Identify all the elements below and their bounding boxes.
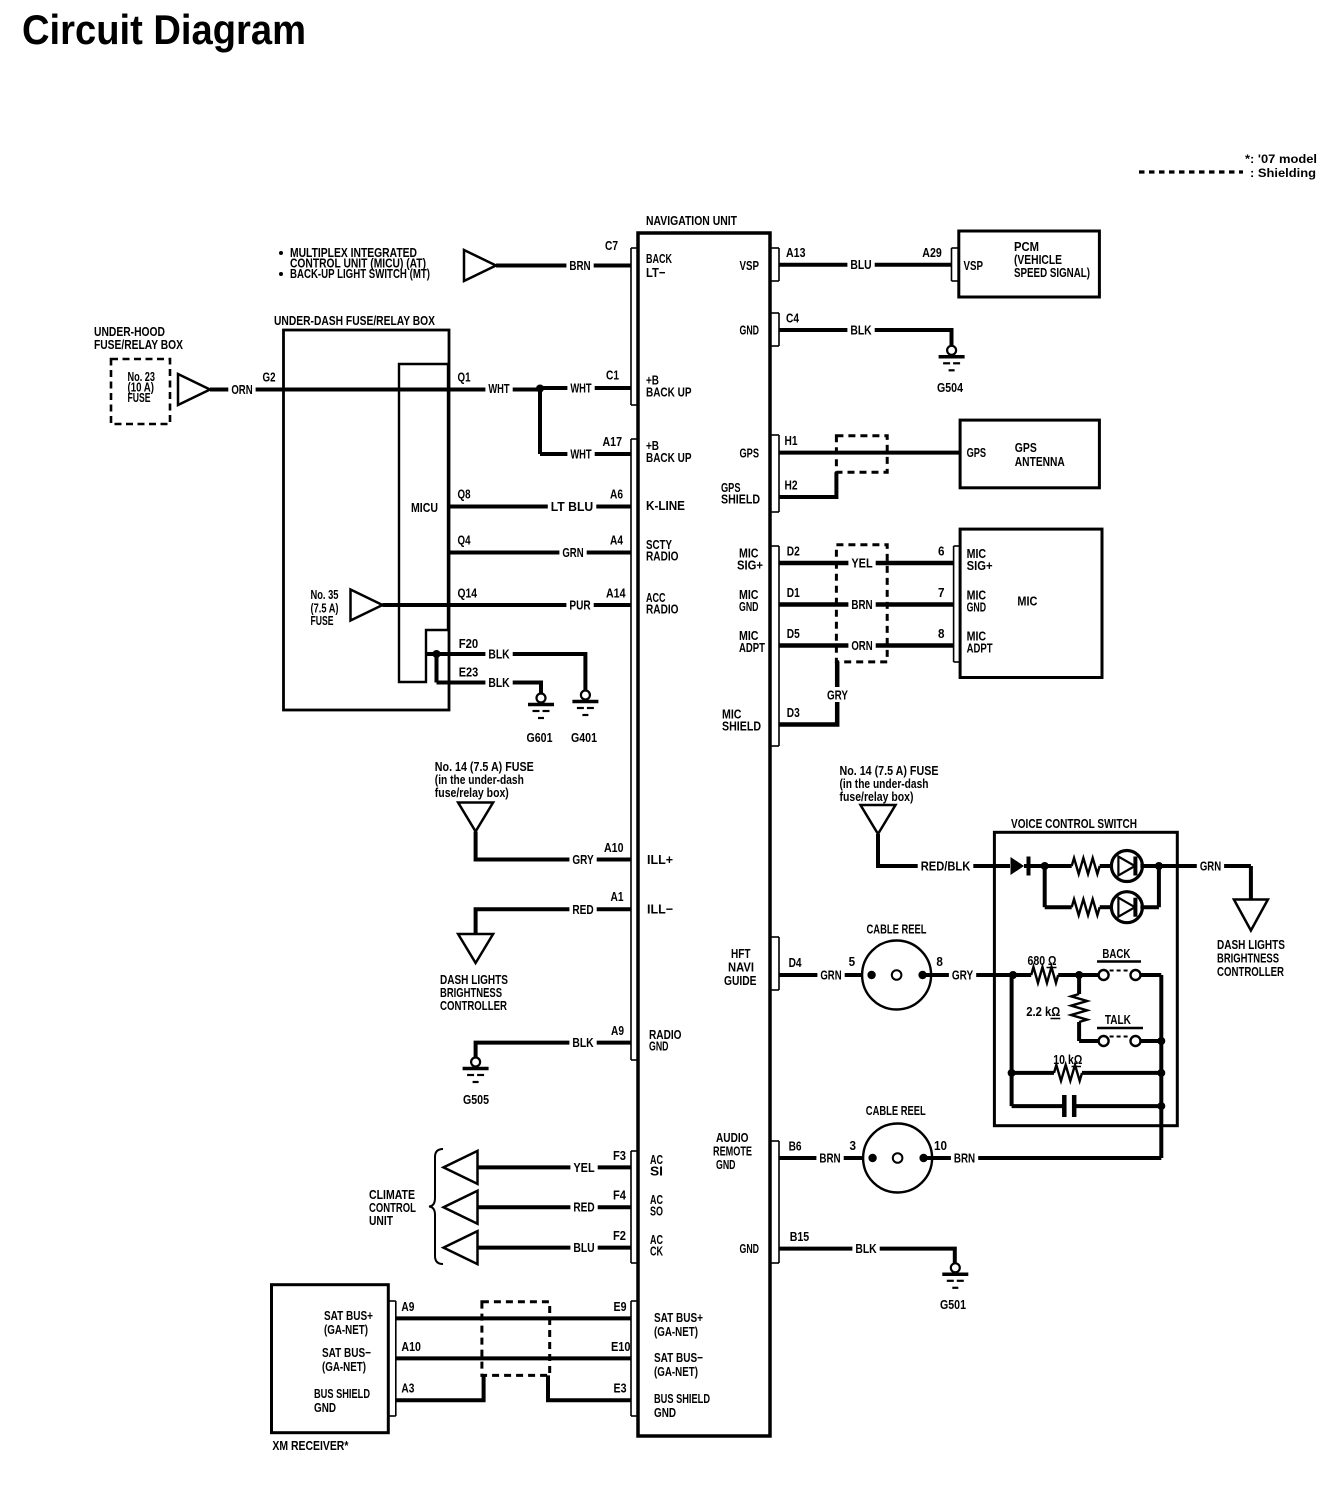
junction dot WHT: [536, 385, 544, 393]
arrow from fuse No.14 left: [458, 803, 493, 832]
connector bracket H (pins H1 H2): [778, 435, 780, 512]
shield dashed box GPS: [836, 436, 887, 473]
arrow to dash lights brightness controller left: [458, 934, 493, 963]
svg-text:A1: A1: [611, 889, 624, 904]
svg-text:GPS: GPS: [1015, 440, 1037, 455]
connector bracket F (pins F3 F4 F2): [630, 1151, 632, 1263]
svg-text:FUSE: FUSE: [128, 390, 151, 405]
junction dot after diode: [1041, 862, 1049, 870]
svg-text:CONTROLLER: CONTROLLER: [1217, 964, 1284, 979]
wire GRY cable reel to switch: [923, 973, 1013, 977]
right bus voice switch: [1159, 975, 1163, 1158]
svg-text:C4: C4: [786, 311, 800, 326]
MIC box: [960, 529, 1102, 677]
svg-text:MIC: MIC: [1017, 594, 1038, 609]
legend shielding dashed line: [1139, 170, 1243, 173]
svg-text:E3: E3: [614, 1381, 627, 1396]
svg-text:GRN: GRN: [820, 968, 841, 983]
arrow from fuse No.23: [178, 374, 210, 405]
wire ORN MIC ADPT D5 pin8: [779, 643, 954, 648]
wire BLU VSP A13 A29: [779, 263, 952, 267]
XM receiver bracket: [395, 1301, 397, 1416]
svg-text:CK: CK: [650, 1244, 663, 1259]
svg-text:RADIO: RADIO: [646, 549, 679, 564]
junction dot 680-2.2k: [1075, 971, 1083, 979]
wire PUR ACC RADIO Q14 A14: [383, 603, 632, 607]
svg-text:B15: B15: [790, 1229, 810, 1244]
svg-text:SAT BUS+: SAT BUS+: [654, 1310, 703, 1325]
svg-text:A13: A13: [786, 245, 806, 260]
svg-text:fuse/relay box): fuse/relay box): [435, 785, 509, 800]
svg-text:BLK: BLK: [855, 1241, 877, 1256]
connector bracket A left (pins A17 A6 A4 A14 A10 A1 A9): [630, 439, 632, 1060]
svg-text:BUS SHIELD: BUS SHIELD: [654, 1391, 710, 1406]
connector bracket A13: [778, 248, 780, 281]
svg-text:G501: G501: [940, 1297, 966, 1312]
svg-text:G504: G504: [937, 380, 964, 395]
climate control brace: [429, 1149, 443, 1264]
svg-text:C1: C1: [606, 368, 619, 383]
ground G504: [947, 346, 956, 355]
wire YEL AC SI F3: [478, 1165, 631, 1169]
svg-text:SAT BUS−: SAT BUS−: [654, 1350, 703, 1365]
svg-text:D1: D1: [787, 585, 800, 600]
svg-text:BACK-UP LIGHT SWITCH (MT): BACK-UP LIGHT SWITCH (MT): [290, 266, 430, 281]
svg-text:8: 8: [938, 626, 945, 641]
svg-text:VOICE CONTROL SWITCH: VOICE CONTROL SWITCH: [1011, 816, 1137, 831]
connector bracket D (pins D2 D1 D5 D3): [778, 546, 780, 746]
cable reel 1: [862, 941, 931, 1010]
svg-text:10: 10: [934, 1138, 947, 1153]
svg-text:(GA-NET): (GA-NET): [654, 1324, 698, 1339]
svg-text:F4: F4: [613, 1188, 627, 1203]
junction dot F20-E23: [433, 650, 441, 658]
svg-text:GPS: GPS: [967, 445, 987, 460]
wire RED/BLK voice control: [878, 834, 1010, 866]
cable reel 2: [863, 1124, 932, 1193]
svg-text:A10: A10: [401, 1339, 421, 1354]
svg-text:(GA-NET): (GA-NET): [322, 1359, 366, 1374]
connector bracket E (pins E9 E10 E3): [630, 1301, 632, 1416]
shield dashed box MIC: [836, 545, 887, 662]
svg-text:K-LINE: K-LINE: [646, 498, 685, 513]
svg-text:C7: C7: [605, 238, 618, 253]
svg-text:YEL: YEL: [851, 556, 872, 571]
svg-text:XM RECEIVER*: XM RECEIVER*: [272, 1438, 349, 1453]
wire BLK E23 to G601: [435, 654, 439, 683]
svg-text:2.2 kΩ: 2.2 kΩ: [1026, 1004, 1060, 1019]
svg-text:SAT BUS+: SAT BUS+: [324, 1308, 373, 1323]
PCM bracket: [951, 248, 953, 281]
junction dot 10k left: [1008, 1069, 1016, 1077]
svg-text:B6: B6: [789, 1139, 802, 1154]
svg-text:A17: A17: [603, 434, 623, 449]
svg-text:TALK: TALK: [1105, 1012, 1131, 1027]
MIC bracket: [953, 546, 955, 662]
svg-text:GND: GND: [967, 600, 987, 615]
wire YEL MIC SIG+ D2 pin6: [779, 561, 954, 566]
wire GRY MIC SHIELD D3: [779, 662, 837, 725]
arrow to dash lights brightness controller right: [1234, 900, 1268, 931]
wire BRN AUDIO REMOTE GND B6: [779, 1156, 871, 1160]
svg-text:SO: SO: [650, 1204, 663, 1219]
svg-text:YEL: YEL: [573, 1160, 594, 1175]
arrow to climate control RED: [444, 1191, 478, 1224]
svg-text:D4: D4: [789, 955, 803, 970]
svg-text:GND: GND: [740, 1241, 760, 1256]
svg-text:RED: RED: [572, 902, 593, 917]
svg-text:A4: A4: [610, 533, 624, 548]
connector bracket D4: [778, 937, 780, 990]
MICU box: [399, 364, 448, 682]
switch BACK: [1079, 973, 1099, 977]
svg-text:SHIELD: SHIELD: [721, 492, 760, 507]
svg-text:FUSE/RELAY BOX: FUSE/RELAY BOX: [94, 337, 183, 352]
svg-text:GPS: GPS: [740, 446, 760, 461]
svg-text:CABLE REEL: CABLE REEL: [866, 1103, 926, 1118]
arrow from fuse No.14 right: [861, 805, 896, 834]
svg-text:ILL−: ILL−: [647, 902, 673, 917]
svg-text:G505: G505: [463, 1092, 489, 1107]
svg-text:G401: G401: [571, 730, 597, 745]
svg-text:BUS SHIELD: BUS SHIELD: [314, 1386, 370, 1401]
capacitor C voice: [1012, 1104, 1065, 1108]
wire LED row2: [1043, 866, 1047, 907]
svg-text:FUSE: FUSE: [311, 613, 334, 628]
svg-text:A10: A10: [604, 840, 624, 855]
arrow to climate control YEL: [444, 1151, 478, 1184]
ground G401: [581, 691, 590, 700]
svg-text:Q1: Q1: [458, 370, 471, 385]
svg-text:NAVIGATION UNIT: NAVIGATION UNIT: [646, 213, 737, 228]
svg-text:BRN: BRN: [954, 1151, 975, 1166]
svg-text:PUR: PUR: [569, 598, 591, 613]
svg-text:8: 8: [936, 954, 943, 969]
wire BLK F20 to G401: [427, 654, 585, 693]
PCM box: [959, 231, 1100, 297]
ground G501: [951, 1263, 960, 1272]
LED 1: [1111, 851, 1142, 882]
wire ORN G2 Q1 WHT C1: [210, 388, 540, 392]
svg-text:WHT: WHT: [488, 381, 509, 396]
svg-text:A9: A9: [611, 1023, 624, 1038]
svg-text:GND: GND: [314, 1400, 336, 1415]
svg-text:LT−: LT−: [646, 265, 666, 280]
wire GPS SHIELD H2: [779, 472, 836, 497]
svg-text:A9: A9: [401, 1299, 414, 1314]
svg-text:BLK: BLK: [488, 647, 510, 662]
GPS antenna box: [960, 420, 1099, 488]
svg-text:Circuit Diagram: Circuit Diagram: [22, 6, 306, 53]
wire GRY ILL+ A10: [476, 832, 631, 860]
wire BRN C7: [496, 264, 631, 268]
left bus voice switch: [1010, 975, 1014, 1106]
resistor 680 ohm: [1013, 973, 1031, 977]
svg-text:BACK: BACK: [646, 251, 672, 266]
resistor LED row1: [1045, 864, 1072, 868]
svg-text:GRY: GRY: [572, 852, 594, 867]
svg-text:G2: G2: [263, 370, 276, 385]
svg-text:GRY: GRY: [827, 688, 848, 703]
wire BRN MIC GND D1 pin7: [779, 602, 954, 607]
svg-text:F3: F3: [613, 1148, 626, 1163]
connector bracket B (pins B6 B15): [778, 1141, 780, 1263]
svg-text:GUIDE: GUIDE: [724, 973, 757, 988]
svg-text:BACK UP: BACK UP: [646, 450, 692, 465]
svg-text:CABLE REEL: CABLE REEL: [867, 922, 927, 937]
svg-text:E9: E9: [614, 1299, 627, 1314]
XM receiver box: [272, 1285, 389, 1433]
svg-text:Q4: Q4: [458, 533, 472, 548]
svg-text:6: 6: [938, 544, 945, 559]
svg-text:SI: SI: [650, 1164, 663, 1179]
svg-text:E23: E23: [459, 665, 479, 680]
switch TALK: [1079, 1039, 1099, 1043]
wire GPS H1: [779, 451, 960, 455]
resistor 10k ohm: [1012, 1071, 1054, 1075]
arrow to climate control BLU: [444, 1231, 478, 1264]
svg-text:(GA-NET): (GA-NET): [324, 1322, 368, 1337]
svg-text:D2: D2: [787, 544, 800, 559]
wire RED ILL- A1: [476, 909, 631, 934]
arrow to back-up light switch: [464, 250, 496, 281]
svg-text:ILL+: ILL+: [647, 852, 673, 867]
junction dot TALK out: [1157, 1037, 1165, 1045]
svg-text:A3: A3: [401, 1381, 414, 1396]
wire GRN voice out: [1159, 864, 1251, 868]
wire GRN SCTY RADIO Q4 A4: [448, 551, 631, 555]
shield dashed box sat bus: [482, 1302, 550, 1376]
svg-text:A6: A6: [610, 487, 623, 502]
svg-text:F2: F2: [613, 1228, 626, 1243]
svg-text:H2: H2: [785, 478, 798, 493]
svg-text:GND: GND: [649, 1039, 669, 1054]
svg-text:G601: G601: [527, 730, 553, 745]
svg-text:A29: A29: [922, 245, 942, 260]
junction dot 10k right: [1157, 1069, 1165, 1077]
svg-text:E10: E10: [611, 1339, 631, 1354]
voice control switch box: [994, 832, 1177, 1125]
svg-text:MICU: MICU: [411, 500, 438, 515]
svg-text:GND: GND: [654, 1405, 676, 1420]
svg-text:BLK: BLK: [572, 1035, 594, 1050]
svg-text:Q14: Q14: [458, 586, 478, 601]
svg-text:7: 7: [938, 585, 945, 600]
wire BRN cable reel 2 to switch: [924, 1156, 1162, 1160]
svg-text:A14: A14: [606, 586, 626, 601]
svg-text:GND: GND: [716, 1157, 736, 1172]
svg-text:GND: GND: [739, 599, 759, 614]
connector bracket C (pins C7 C1): [630, 248, 632, 405]
svg-text:SPEED SIGNAL): SPEED SIGNAL): [1014, 265, 1090, 280]
svg-text:D3: D3: [787, 705, 800, 720]
svg-text:SHIELD: SHIELD: [722, 719, 761, 734]
wire WHT A17 branch: [538, 389, 542, 455]
svg-text:BACK: BACK: [1102, 946, 1130, 961]
svg-text:ADPT: ADPT: [967, 641, 993, 656]
svg-text:F20: F20: [459, 636, 479, 651]
junction dot cap right: [1157, 1102, 1165, 1110]
svg-text:SAT BUS−: SAT BUS−: [322, 1345, 371, 1360]
svg-text:SIG+: SIG+: [967, 558, 993, 573]
svg-text:BLU: BLU: [850, 257, 871, 272]
svg-text:GRY: GRY: [952, 968, 974, 983]
wire GRN HFT NAVI GUIDE D4: [779, 973, 872, 977]
svg-text:UNDER-DASH FUSE/RELAY BOX: UNDER-DASH FUSE/RELAY BOX: [274, 313, 435, 328]
svg-text:H1: H1: [785, 433, 798, 448]
svg-text:Q8: Q8: [458, 487, 471, 502]
LED 2: [1111, 892, 1142, 923]
under-dash fuse relay box: [284, 330, 450, 710]
svg-text:CONTROLLER: CONTROLLER: [440, 998, 507, 1013]
connector bracket C4: [778, 313, 780, 346]
wire BLK GND B15 to G501: [779, 1249, 955, 1263]
svg-text:ORN: ORN: [231, 382, 252, 397]
resistor LED row2: [1072, 899, 1100, 915]
svg-text:GND: GND: [740, 323, 760, 338]
diode D voice: [1011, 857, 1025, 875]
svg-text:fuse/relay box): fuse/relay box): [840, 789, 914, 804]
svg-text:BRN: BRN: [819, 1151, 840, 1166]
svg-text:VSP: VSP: [740, 258, 760, 273]
ground G601: [537, 694, 546, 703]
svg-text:LT BLU: LT BLU: [551, 499, 594, 514]
navigation unit U1 box: [638, 233, 770, 1436]
wire BLK RADIO GND A9: [476, 1043, 631, 1057]
wire RED AC SO F4: [478, 1205, 631, 1209]
wire LT BLU K-LINE Q8 A6: [448, 505, 631, 509]
junction dot GRY: [1009, 971, 1017, 979]
svg-text:3: 3: [850, 1138, 857, 1153]
wire SAT BUS- A10 E10: [396, 1356, 631, 1360]
svg-text:BLU: BLU: [573, 1240, 594, 1255]
svg-text:BRN: BRN: [569, 258, 590, 273]
svg-text:GRN: GRN: [562, 545, 583, 560]
svg-text:5: 5: [849, 954, 856, 969]
svg-text:680 Ω: 680 Ω: [1028, 953, 1057, 968]
svg-text:UNIT: UNIT: [369, 1213, 393, 1228]
svg-text:RED: RED: [573, 1200, 594, 1215]
svg-text:D5: D5: [787, 626, 800, 641]
svg-text:VSP: VSP: [964, 258, 984, 273]
fuse No.23 box (dashed): [111, 359, 170, 424]
svg-text:ADPT: ADPT: [739, 640, 765, 655]
svg-text:RADIO: RADIO: [646, 602, 679, 617]
wire SAT BUS+ A9 E9: [396, 1316, 631, 1320]
wire BUS SHIELD GND A3 E3: [396, 1375, 484, 1400]
svg-text:BLK: BLK: [488, 675, 510, 690]
svg-text:WHT: WHT: [570, 381, 591, 396]
ground G505: [471, 1058, 480, 1067]
svg-text:(GA-NET): (GA-NET): [654, 1364, 698, 1379]
svg-text:10 kΩ: 10 kΩ: [1053, 1052, 1082, 1067]
svg-text:RED/BLK: RED/BLK: [921, 859, 971, 874]
svg-text:BLK: BLK: [850, 323, 872, 338]
svg-text:ANTENNA: ANTENNA: [1015, 454, 1065, 469]
arrow from fuse No.35: [351, 590, 383, 621]
svg-text:BRN: BRN: [851, 597, 872, 612]
resistor 2.2k ohm: [1077, 975, 1081, 994]
svg-text:SIG+: SIG+: [737, 558, 763, 573]
svg-text:BACK UP: BACK UP: [646, 385, 692, 400]
svg-text:ORN: ORN: [851, 638, 872, 653]
junction dot LED out: [1155, 862, 1163, 870]
wire BLK GND C4 to G504: [779, 330, 952, 345]
svg-text:WHT: WHT: [570, 447, 591, 462]
svg-text:: Shielding: : Shielding: [1250, 166, 1316, 180]
svg-text:GRN: GRN: [1200, 859, 1221, 874]
svg-text:*: '07 model: *: '07 model: [1245, 152, 1317, 166]
wire BLU AC CK F2: [478, 1246, 631, 1250]
